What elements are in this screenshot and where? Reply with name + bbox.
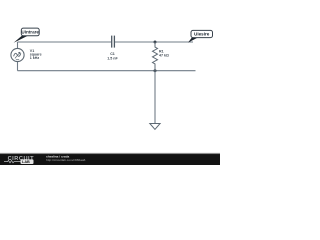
flag Uiesire xyxy=(188,30,213,42)
svg-text:http://circuitlab.com/c886aa6: http://circuitlab.com/c886aa6 xyxy=(46,158,86,162)
svg-text:LAB: LAB xyxy=(22,160,30,164)
wire V1 bottom stub xyxy=(17,62,19,71)
svg-text:Uintrare: Uintrare xyxy=(21,30,39,35)
footer watermark bar xyxy=(0,153,220,165)
label V1 value xyxy=(30,49,42,60)
svg-text:47 kΩ: 47 kΩ xyxy=(159,53,169,57)
svg-text:1 kHz: 1 kHz xyxy=(30,56,40,60)
voltage source V1 xyxy=(11,48,24,61)
label C1 value xyxy=(107,52,118,60)
CircuitLab logo xyxy=(4,156,34,164)
resistor R1 xyxy=(153,42,158,71)
label R1 value xyxy=(159,50,169,58)
svg-text:Uiesire: Uiesire xyxy=(194,32,210,37)
svg-text:1.5 nF: 1.5 nF xyxy=(107,56,118,60)
wire top rail left segment (node Uintrare to C1 left plate) xyxy=(18,41,112,43)
flag Uintrare xyxy=(14,28,40,43)
wire ground stub xyxy=(154,71,156,124)
ground xyxy=(150,124,160,130)
wire bottom rail xyxy=(18,70,196,72)
wire V1 top stub xyxy=(17,42,19,48)
node junction dot bottom (R1 bottom / ground) xyxy=(154,69,157,72)
wire top rail right segment (C1 right plate to Uiesire node) xyxy=(115,41,193,43)
node junction dot top (R1 top) xyxy=(154,41,157,44)
svg-text:C1: C1 xyxy=(110,52,115,56)
capacitor C1 xyxy=(112,36,115,48)
